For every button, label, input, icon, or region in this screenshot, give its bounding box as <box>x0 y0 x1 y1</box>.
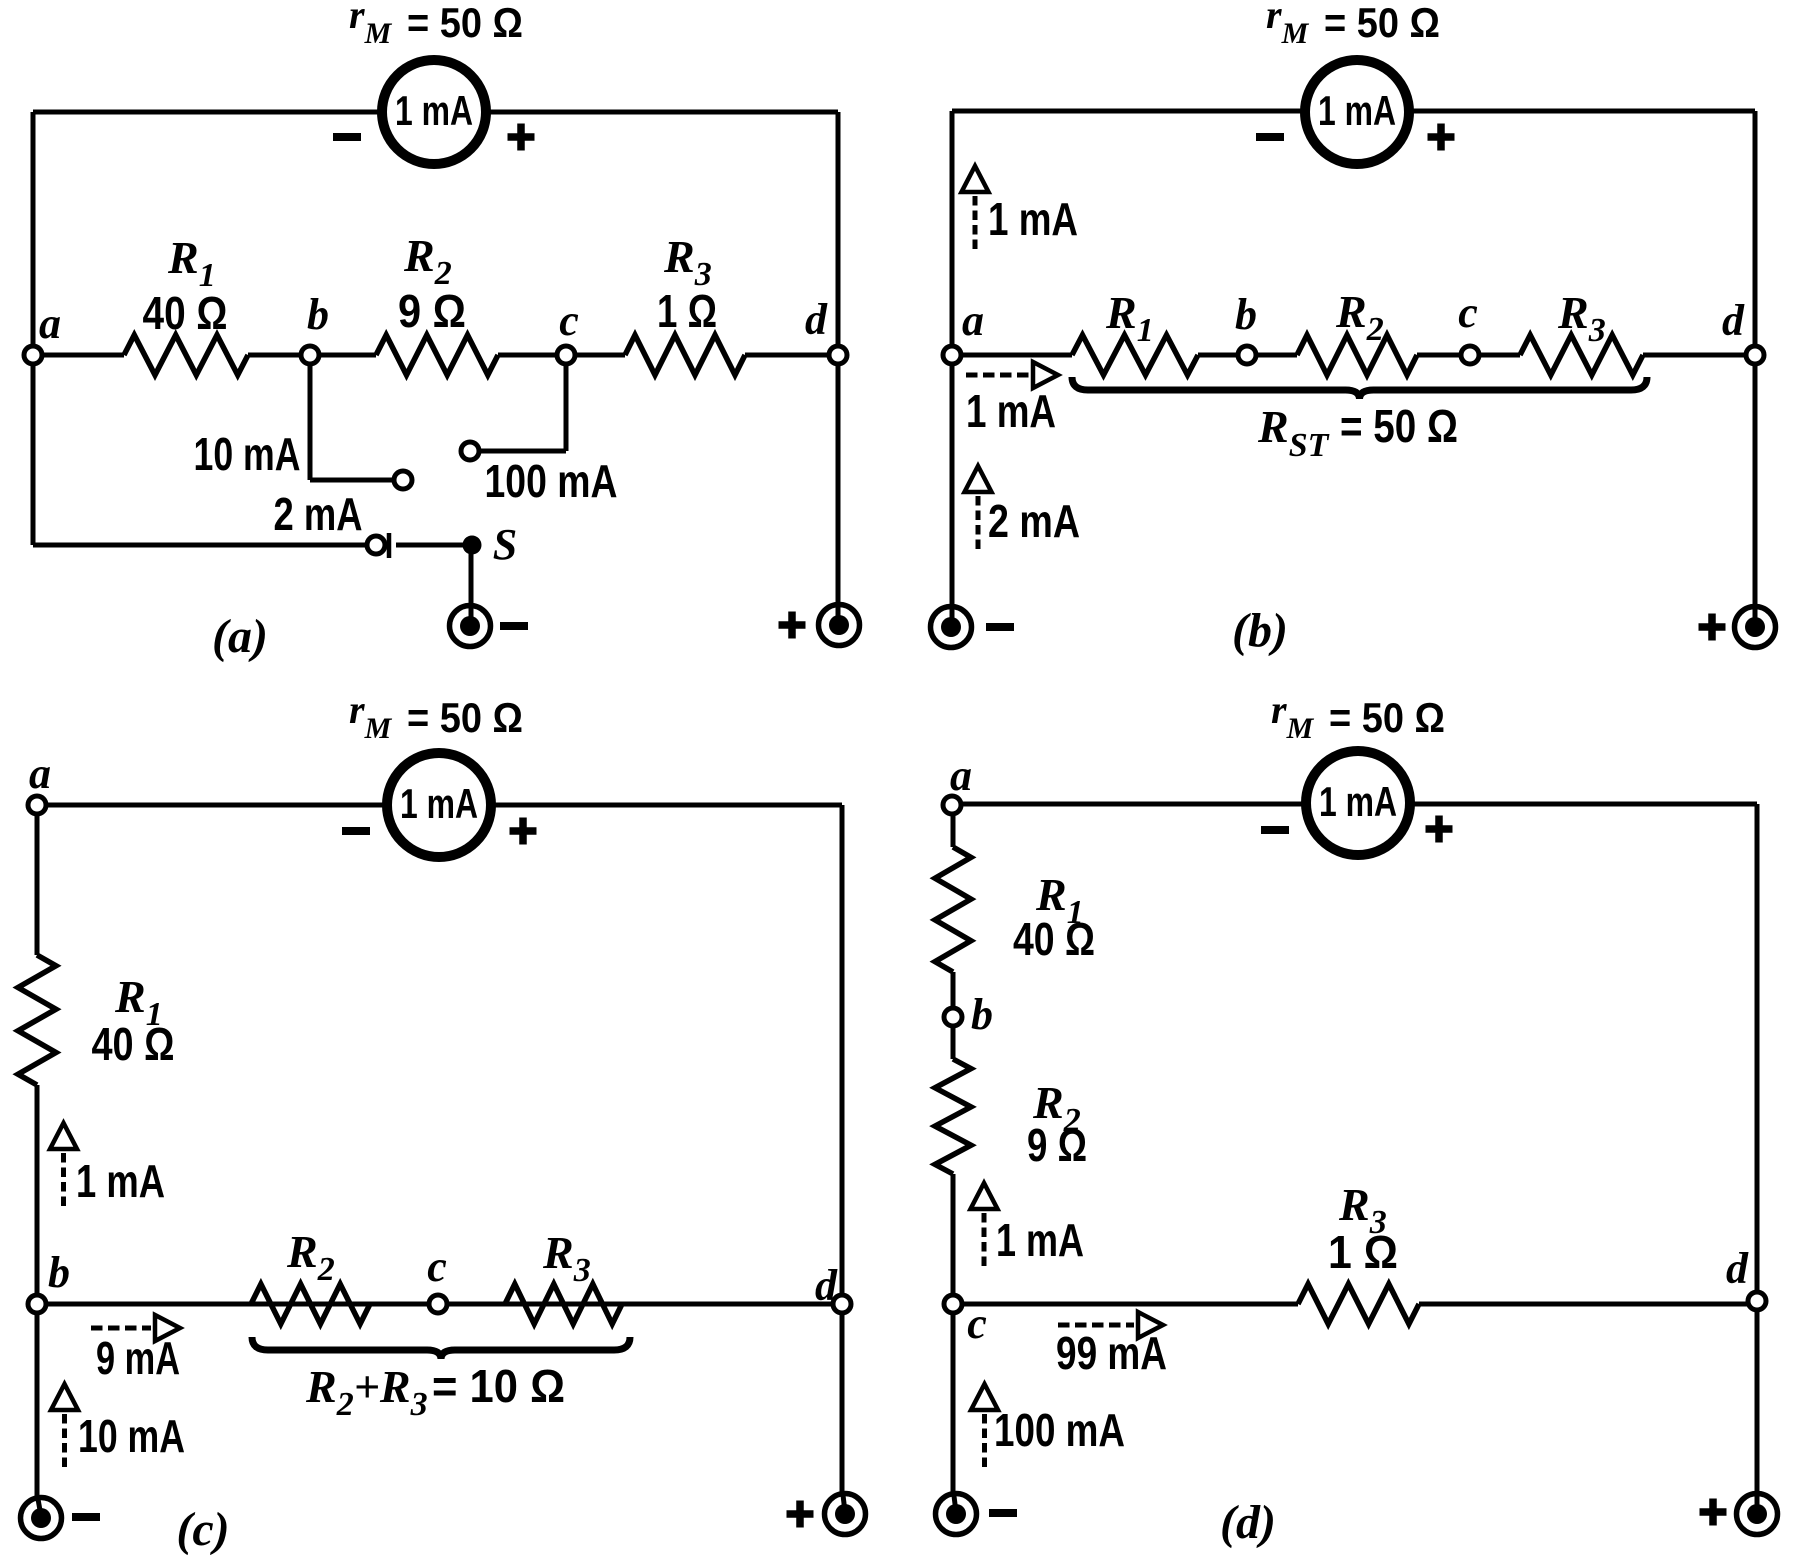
svg-text:S: S <box>493 520 517 569</box>
svg-text:10 mA: 10 mA <box>78 1410 185 1462</box>
svg-text:c: c <box>967 1299 987 1348</box>
svg-text:1 mA: 1 mA <box>1318 87 1396 134</box>
svg-text:40 Ω: 40 Ω <box>1013 913 1095 965</box>
svg-text:b: b <box>971 990 993 1039</box>
svg-text:= 50 Ω: = 50 Ω <box>407 694 523 741</box>
svg-text:d: d <box>1726 1244 1749 1293</box>
svg-text:1 Ω: 1 Ω <box>1328 1226 1398 1278</box>
svg-text:1 mA: 1 mA <box>400 780 478 827</box>
svg-text:100 mA: 100 mA <box>485 455 618 507</box>
svg-text:99 mA: 99 mA <box>1056 1327 1167 1379</box>
svg-text:1 mA: 1 mA <box>1319 778 1397 825</box>
svg-text:1 mA: 1 mA <box>966 385 1056 437</box>
svg-text:40 Ω: 40 Ω <box>92 1018 175 1070</box>
svg-text:d: d <box>805 295 828 344</box>
svg-text:a: a <box>950 751 972 800</box>
svg-text:a: a <box>39 299 61 348</box>
svg-text:100 mA: 100 mA <box>994 1404 1125 1456</box>
svg-text:= 10 Ω: = 10 Ω <box>432 1360 565 1412</box>
svg-text:(b): (b) <box>1232 604 1288 657</box>
svg-text:(d): (d) <box>1220 1496 1276 1549</box>
svg-text:= 50 Ω: = 50 Ω <box>1324 0 1440 46</box>
svg-text:b: b <box>48 1248 70 1297</box>
svg-text:9 Ω: 9 Ω <box>1027 1119 1087 1171</box>
svg-text:2 mA: 2 mA <box>274 488 363 540</box>
svg-text:a: a <box>29 749 51 798</box>
svg-text:c: c <box>427 1242 447 1291</box>
svg-text:= 50 Ω: = 50 Ω <box>1340 400 1458 452</box>
svg-text:a: a <box>962 296 984 345</box>
svg-text:d: d <box>1722 296 1745 345</box>
svg-text:9 mA: 9 mA <box>96 1332 180 1384</box>
svg-text:c: c <box>559 296 579 345</box>
svg-text:10 mA: 10 mA <box>194 428 301 480</box>
svg-text:(c): (c) <box>176 1503 229 1556</box>
svg-text:2 mA: 2 mA <box>988 495 1080 547</box>
svg-text:d: d <box>815 1261 838 1310</box>
svg-text:40 Ω: 40 Ω <box>143 287 228 339</box>
svg-text:c: c <box>1458 288 1478 337</box>
svg-text:= 50 Ω: = 50 Ω <box>407 0 523 46</box>
svg-text:1 Ω: 1 Ω <box>657 285 717 337</box>
svg-text:b: b <box>1235 290 1257 339</box>
svg-text:1 mA: 1 mA <box>996 1214 1084 1266</box>
svg-text:1 mA: 1 mA <box>76 1155 165 1207</box>
svg-text:= 50 Ω: = 50 Ω <box>1329 694 1445 741</box>
svg-text:b: b <box>307 290 329 339</box>
svg-text:9 Ω: 9 Ω <box>398 285 466 337</box>
svg-text:(a): (a) <box>212 610 268 663</box>
svg-text:1 mA: 1 mA <box>988 193 1078 245</box>
svg-text:1 mA: 1 mA <box>395 87 473 134</box>
